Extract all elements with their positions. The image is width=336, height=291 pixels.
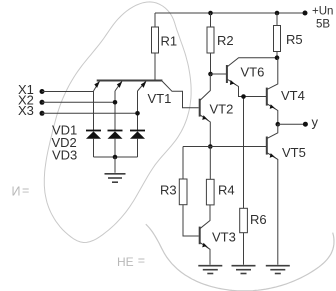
svg-text:VT4: VT4 <box>281 88 305 103</box>
node output <box>276 122 281 127</box>
svg-text:y: y <box>312 115 319 130</box>
transistor VT3 <box>200 205 236 265</box>
svg-text:=: = <box>22 184 29 198</box>
transistor VT1 (multi-emitter) <box>94 81 199 108</box>
transistor VT4 <box>267 58 305 125</box>
node: rail/R2 junction <box>208 11 213 16</box>
emitter <box>267 104 278 125</box>
svg-text:R6: R6 <box>250 212 267 227</box>
resistor R2 <box>210 13 212 27</box>
emitter <box>200 242 210 264</box>
transistor VT6 <box>227 58 277 97</box>
wire: R2 node to VT6 base <box>211 73 227 75</box>
ground (diodes) <box>105 174 126 182</box>
svg-text:R2: R2 <box>217 33 234 48</box>
collector <box>267 58 278 90</box>
emitter 3 <box>138 81 147 91</box>
emitter <box>200 115 211 147</box>
node R2 bottom <box>208 72 213 77</box>
svg-text:X3: X3 <box>18 103 34 118</box>
resistor R4 <box>209 147 211 180</box>
node diode common <box>113 155 118 160</box>
wire: diode common bottom <box>94 156 138 158</box>
node X2/e2 <box>113 100 118 105</box>
node VT6 emitter / R6 / VT4 base <box>241 94 246 99</box>
emitter 2 <box>115 81 122 91</box>
svg-text:VT2: VT2 <box>210 102 234 117</box>
node: rail/R5 junction <box>275 11 280 16</box>
svg-text:НЕ: НЕ <box>117 255 134 269</box>
svg-text:VT1: VT1 <box>148 91 172 106</box>
collector <box>227 58 277 67</box>
svg-text:VT5: VT5 <box>282 145 306 160</box>
node R5 bottom <box>275 55 280 60</box>
AND-region boundary ellipse (И) <box>44 2 191 243</box>
diode VD1 <box>86 131 101 158</box>
svg-text:R4: R4 <box>218 183 235 198</box>
svg-text:R3: R3 <box>160 183 177 198</box>
svg-text:R1: R1 <box>161 34 178 49</box>
NOT-region boundary arc (НЕ) <box>146 224 334 291</box>
collector path to VT2 base <box>162 81 199 108</box>
wire emitter2 down <box>114 91 116 130</box>
svg-text:5В: 5В <box>316 19 330 31</box>
collector <box>200 74 211 101</box>
transistor VT5 <box>267 124 306 265</box>
diode VD3 <box>130 131 145 158</box>
wire: top power rail <box>155 12 305 14</box>
node VT2 emitter / R4 <box>208 144 213 149</box>
ground (VT5) <box>266 266 290 274</box>
terminal y <box>303 122 308 127</box>
svg-text:VD3: VD3 <box>52 148 77 163</box>
wire X1 <box>42 92 94 131</box>
wire: R3 top <box>182 147 184 180</box>
ground (R6) <box>232 266 256 274</box>
svg-text:VT3: VT3 <box>212 230 236 245</box>
svg-text:+Un: +Un <box>312 6 333 18</box>
wire: emitter bus to VT5 base <box>183 146 266 148</box>
base bar <box>97 80 163 82</box>
svg-text:VT6: VT6 <box>241 65 265 80</box>
resistor R6 <box>243 97 245 209</box>
emitter 1 <box>94 81 100 91</box>
diode VD2 <box>108 131 123 158</box>
svg-text:R5: R5 <box>286 32 303 47</box>
wire X2 <box>42 101 115 103</box>
resistor R1 <box>154 13 156 27</box>
transistor VT2 <box>200 74 234 147</box>
node X3/e3 <box>135 111 140 116</box>
collector <box>267 124 278 138</box>
resistor R3 <box>179 179 187 205</box>
wire output <box>278 123 306 125</box>
wire emitter3 down <box>137 91 139 130</box>
ground (VT3) <box>198 266 222 274</box>
resistor R5 <box>276 13 278 26</box>
svg-text:=: = <box>138 254 145 268</box>
svg-text:И: И <box>12 185 21 199</box>
collector <box>200 205 210 229</box>
wire X3 <box>42 112 138 114</box>
emitter <box>227 79 266 97</box>
terminal +Un <box>303 11 308 16</box>
wire to ground <box>114 157 116 173</box>
emitter <box>267 153 278 265</box>
